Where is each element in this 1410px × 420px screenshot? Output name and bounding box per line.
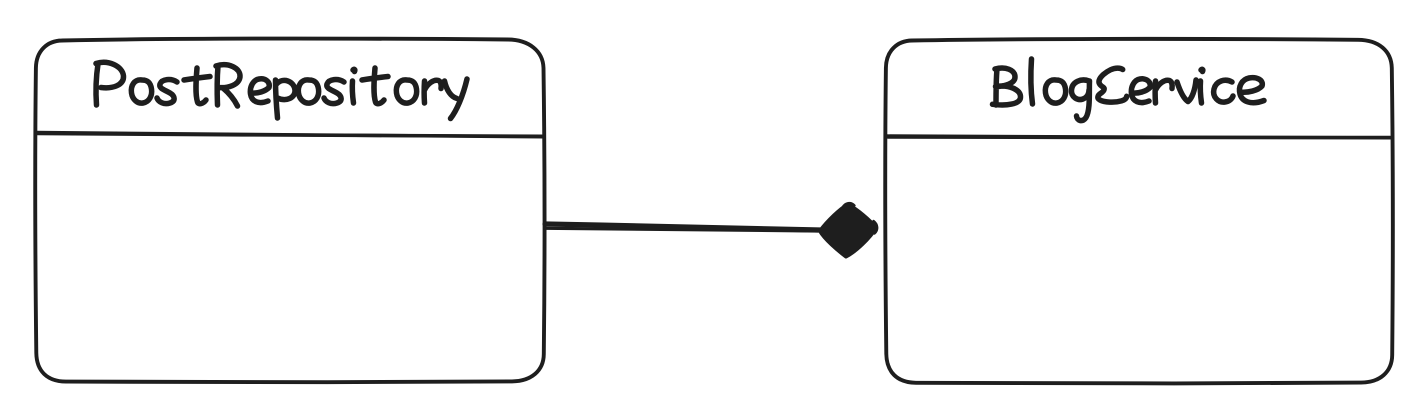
- label BlogService: [993, 59, 1265, 121]
- class box PostRepository: [35, 39, 544, 383]
- class box BlogService: [885, 39, 1392, 384]
- composition diamond: [820, 203, 877, 256]
- wire association PostRepository-BlogService: [545, 224, 820, 231]
- label PostRepository: [96, 62, 467, 118]
- divider PostRepository: [37, 133, 544, 137]
- divider BlogService: [887, 136, 1392, 138]
